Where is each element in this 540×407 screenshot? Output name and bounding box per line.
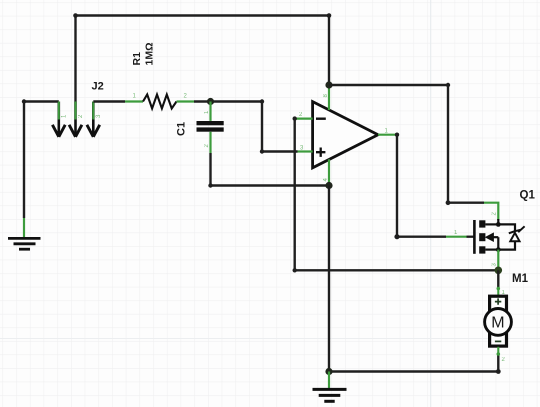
wire rail down to J2 pin 2 [74,16,76,102]
wire V+ node to Q1 drain [329,85,484,203]
node corner [293,116,297,120]
R1 pin 2 [177,100,195,102]
wire rail down to op-amp V+ pin [328,16,330,86]
U1 pin 4 V- [328,159,330,185]
M1 pin 1 [497,288,499,296]
junction bottom rail [325,368,332,375]
J2 arrow pin 3 [87,102,102,137]
transistor Q1 [446,190,535,271]
node corner top-right [327,13,332,18]
ground GND2 [313,389,347,401]
motor M1 [485,273,529,363]
node corner [395,133,399,137]
svg-text:M: M [491,315,504,332]
op-amp U1 [295,85,397,186]
ground GND1 pin [23,218,25,237]
junction op-amp V- node [325,182,332,189]
wire node A to op-amp +input corner [211,102,298,152]
node corner [293,268,297,272]
ground GND2 pin [328,372,330,389]
U1 pin 1 output [378,134,397,136]
node corner [496,369,501,374]
svg-text:1MΩ: 1MΩ [144,42,156,65]
Q1 source pin green [497,250,499,271]
node corner [446,200,451,205]
Q1 channel bar bottom [479,246,485,253]
C1 top plate [197,121,224,125]
Q1 channel bar top [479,220,485,227]
svg-text:J2: J2 [92,81,104,93]
J2 arrow pin 1 [52,102,67,137]
svg-text:M1: M1 [512,273,529,285]
Q1 drain pin green [484,203,498,220]
svg-text:Q1: Q1 [520,190,536,202]
node corner [260,99,264,103]
wire C1 bottom down and right to op-amp V- node [211,153,330,186]
junction node A [207,98,214,105]
node corner [446,83,450,87]
node corner [394,234,399,239]
Q1 body diode triangle [510,233,519,241]
junction M1 plus node [495,267,503,275]
C1 pin 1 [209,102,211,121]
wire op-amp inverting feedback to M1 plus node [295,119,499,271]
node corner top-left [73,13,78,18]
U1 plus marking [316,148,325,157]
Q1 source arrow [486,233,494,241]
M1 minus marking [495,340,501,342]
Q1 drain link [485,223,498,225]
Q1 body diode rail [498,224,515,249]
U1 pin 3 non-inverting input [298,150,313,152]
M1 body rect [490,296,507,346]
node corner left [22,99,26,103]
R1 pin 1 [125,100,143,102]
U1 minus marking [316,117,326,119]
Q1 body diode cathode stroke [509,226,525,233]
node corner [208,183,212,187]
wire J2 pin3 to R1 [93,100,125,102]
Q1 gate wire green pin [446,236,467,238]
M1 pin 2 [497,347,499,355]
wire op-amp output down to Q1 gate [397,135,446,237]
M1 rotor circle [485,309,512,336]
R1 zigzag [143,95,177,109]
svg-text:C1: C1 [176,122,188,136]
capacitor C1 [176,102,224,154]
wire V- node down to bottom rail and to M1 minus [329,186,498,372]
C1 bottom plate [197,127,224,131]
ground GND1 [8,238,41,249]
node corner [260,149,264,153]
M1 plus marking [495,298,501,304]
connector J2 [52,81,103,137]
junction op-amp V+ node [325,81,332,88]
node Q1 drain [496,222,501,227]
U1 body [313,102,378,168]
Q1 channel bar middle [479,233,485,241]
C1 pin 2 [209,132,211,153]
resistor R1 [125,42,194,108]
wire R1 to node A [194,100,211,102]
Q1 gate bar [473,220,476,254]
svg-text:R1: R1 [131,52,143,66]
U1 pin 8 V+ [328,85,330,110]
node Q1 source [496,247,501,252]
wire J2 pin1 to ground drop [24,102,59,219]
U1 pin 2 inverting input [295,117,313,119]
Q1 source link [485,249,498,251]
wire M1 plus node to motor [497,270,499,288]
J2 arrow pin 2 [69,102,84,137]
wire top rail V+ [76,14,330,16]
